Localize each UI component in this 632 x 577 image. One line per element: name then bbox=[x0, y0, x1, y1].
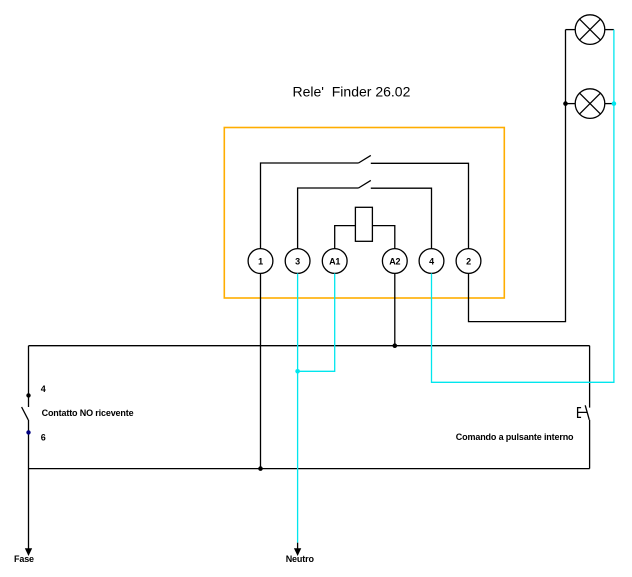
svg-text:6: 6 bbox=[41, 432, 46, 442]
wire lamp 2 right connector bbox=[605, 103, 614, 105]
Fase arrowhead bbox=[25, 549, 31, 556]
top bus wire bbox=[29, 345, 590, 347]
wire switch to bottom bus and Fase arrow bbox=[28, 420, 30, 549]
wire terminal A1 to coil bbox=[335, 226, 356, 249]
wire terminal 1 to contact 1 bbox=[261, 163, 359, 249]
relay outline box bbox=[224, 128, 504, 299]
terminal dot 4 of receiver contact bbox=[26, 393, 30, 397]
contact blade 2 bbox=[359, 180, 371, 188]
contact blade 1 bbox=[359, 155, 371, 163]
wire terminal A1 to Neutro cyan bbox=[298, 273, 335, 371]
pushbutton blade bbox=[585, 405, 589, 420]
wire terminal 1 down to bottom bus bbox=[260, 273, 262, 468]
wire terminal 3 to contact 2 bbox=[298, 188, 359, 249]
terminal A2 bbox=[382, 249, 407, 274]
wire terminal 2 to lamp left rail bbox=[469, 30, 566, 322]
wire pushbutton to bottom bus bbox=[589, 420, 591, 469]
wire lamp 1 right connector bbox=[605, 29, 614, 31]
lamp 2 bbox=[575, 89, 605, 119]
wire terminal 3 Neutro cyan bbox=[297, 273, 299, 542]
svg-text:Contatto NO ricevente: Contatto NO ricevente bbox=[42, 408, 134, 418]
svg-text:2: 2 bbox=[466, 256, 471, 266]
Neutro arrowhead bbox=[294, 549, 300, 556]
svg-text:4: 4 bbox=[41, 384, 46, 394]
svg-text:3: 3 bbox=[295, 256, 300, 266]
terminal 2 bbox=[456, 249, 481, 274]
svg-text:Neutro: Neutro bbox=[286, 554, 315, 564]
junction lamp 2 left bbox=[563, 101, 568, 106]
terminal 4 bbox=[419, 249, 444, 274]
wire contact 1 to terminal 2 bbox=[371, 163, 469, 248]
junction A1 Neutro cyan bbox=[295, 369, 300, 374]
wire terminal A2 down to top bus bbox=[394, 273, 396, 345]
wire terminal A2 to coil bbox=[372, 226, 394, 249]
terminal 1 bbox=[248, 249, 273, 274]
terminal 3 bbox=[285, 249, 310, 274]
svg-text:A1: A1 bbox=[329, 256, 340, 266]
wire lamp 1 left connector bbox=[566, 29, 576, 31]
wire lamp 2 left connector bbox=[566, 103, 576, 105]
junction A2 top bus bbox=[393, 343, 398, 348]
pushbutton actuator bracket bbox=[578, 408, 588, 418]
Neutro arrow stem bbox=[297, 543, 299, 549]
wire terminal 4 to lamp right rail cyan bbox=[432, 30, 614, 383]
svg-text:Comando a pulsante interno: Comando a pulsante interno bbox=[456, 432, 574, 442]
relay coil bbox=[355, 207, 372, 241]
lamp 1 bbox=[575, 15, 605, 45]
svg-text:1: 1 bbox=[258, 256, 263, 266]
junction terminal 1 bottom bus bbox=[258, 466, 263, 471]
svg-text:Fase: Fase bbox=[14, 554, 34, 564]
svg-text:4: 4 bbox=[429, 256, 434, 266]
wire right edge to pushbutton bbox=[589, 346, 591, 408]
terminal A1 bbox=[322, 249, 347, 274]
wire contact 2 to terminal 4 bbox=[371, 188, 432, 248]
bottom bus wire bbox=[29, 468, 590, 470]
wire left edge to switch bbox=[28, 346, 30, 407]
svg-text:A2: A2 bbox=[389, 256, 400, 266]
junction lamp 2 right cyan bbox=[612, 101, 617, 106]
terminal dot 6 of receiver contact bbox=[26, 430, 30, 434]
switch S1 blade Contatto NO bbox=[22, 407, 29, 420]
svg-text:Rele' Finder 26.02: Rele' Finder 26.02 bbox=[293, 84, 411, 100]
